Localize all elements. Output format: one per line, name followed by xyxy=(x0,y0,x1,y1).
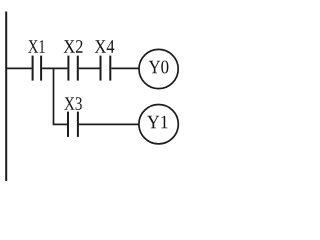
label X2 xyxy=(64,40,83,53)
left power rail xyxy=(5,12,7,182)
wire X2 to X4 xyxy=(79,67,100,69)
wire X3 to coil Y1 xyxy=(79,123,139,125)
coil Y1 circle xyxy=(139,105,178,144)
wire X4 to coil Y0 xyxy=(111,67,139,69)
label Y0 xyxy=(149,61,169,74)
wire rung1 rail to X1 xyxy=(6,67,31,69)
contact X2 xyxy=(68,56,77,81)
label X3 xyxy=(64,97,82,110)
label X1 xyxy=(28,40,44,53)
label X4 xyxy=(95,40,115,53)
coil Y0 circle xyxy=(139,49,178,88)
contact X3 xyxy=(68,112,78,137)
contact X4 xyxy=(101,56,111,81)
branch wire vertical xyxy=(53,68,55,124)
contact X1 xyxy=(33,56,42,81)
label Y1 xyxy=(147,116,168,129)
wire branch to X3 xyxy=(53,123,67,125)
wire X1 to X2 xyxy=(42,67,67,69)
